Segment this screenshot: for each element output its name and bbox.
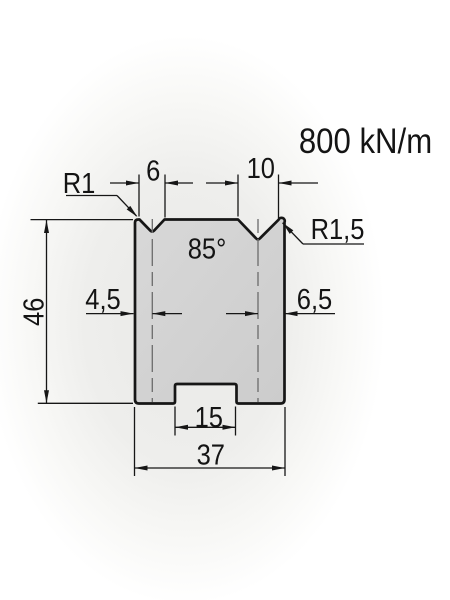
svg-text:6: 6 <box>146 154 160 187</box>
svg-text:15: 15 <box>195 400 223 433</box>
label R1,5 leader <box>283 223 365 244</box>
svg-text:46: 46 <box>17 298 50 326</box>
svg-text:R1,5: R1,5 <box>311 212 365 245</box>
dimension 10 <box>206 175 318 219</box>
dimension 6 <box>110 175 193 218</box>
svg-text:85°: 85° <box>188 232 227 265</box>
dimension 6,5 <box>226 313 335 315</box>
left V centerline <box>151 219 153 402</box>
svg-text:R1: R1 <box>63 166 96 199</box>
die body <box>135 218 285 404</box>
svg-text:6,5: 6,5 <box>297 282 332 315</box>
svg-text:4,5: 4,5 <box>85 282 120 315</box>
right V centerline <box>257 219 259 402</box>
dimension 4,5 <box>86 313 182 315</box>
svg-text:37: 37 <box>197 438 225 471</box>
label R1 leader <box>66 196 137 217</box>
dimension 15 <box>175 407 236 436</box>
dimension 37 <box>135 407 286 476</box>
dimension 46 <box>31 220 134 404</box>
svg-text:800 kN/m: 800 kN/m <box>299 122 432 161</box>
svg-text:10: 10 <box>247 151 275 184</box>
